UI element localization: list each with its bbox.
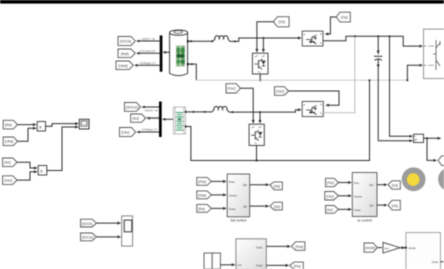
svg-text:Imes: Imes (229, 207, 236, 211)
chopper2 IGBT diode block (249, 124, 264, 145)
From tag Ibat3 (197, 204, 212, 212)
wire gain to state block (400, 247, 405, 249)
From tag Usc3 (325, 192, 339, 201)
inductor L1 (213, 36, 230, 42)
negative DC bus (light) (196, 79, 407, 81)
wire mode to gain (377, 247, 382, 249)
svg-text:[SOCsc]: [SOCsc] (82, 236, 94, 240)
svg-text:[SOCsc]: [SOCsc] (126, 105, 139, 109)
svg-text:[Pre]: [Pre] (294, 265, 301, 269)
svg-text:[Psc]: [Psc] (327, 181, 334, 185)
svg-text:Db: Db (243, 183, 247, 187)
wire demux1 to Ubat1 (134, 64, 160, 67)
wire product2 to scope (47, 127, 78, 171)
wire DC bus to voltmeter minus (390, 36, 413, 136)
From tag Psc1 (326, 178, 339, 186)
svg-text:Imes: Imes (354, 208, 361, 212)
From tag Gsc2 (275, 87, 289, 96)
wire Ibat2 to product1 (18, 124, 36, 126)
wire bus to chopper1 collector (262, 38, 264, 52)
svg-text:[Isc]: [Isc] (327, 208, 333, 212)
svg-text:[Usc]: [Usc] (122, 131, 130, 135)
svg-text:In1: In1 (238, 263, 243, 267)
From tag Ibat2 (3, 120, 17, 129)
SOC scope block (122, 216, 133, 246)
svg-text:<Current A>: <Current A> (139, 49, 156, 53)
wire Gb to chopper1 gate (257, 22, 273, 52)
wire battery m to demux1 (162, 51, 170, 54)
wire demux2 to Isc1 (146, 117, 159, 120)
From tag SOCb2 (81, 219, 97, 227)
svg-text:<SOC> %: <SOC> % (141, 37, 155, 41)
demux battery1 (160, 35, 163, 71)
wires into sc control (338, 182, 351, 184)
wire demux2 to Usc1 (136, 131, 159, 134)
From tag Isc3 (326, 206, 339, 214)
wire IGBT3 out to DC plus bus (light) (323, 37, 355, 113)
From tag Gsc (226, 84, 240, 93)
svg-text:[Gs2]: [Gs2] (276, 89, 284, 93)
svg-text:Out1: Out1 (256, 246, 263, 250)
svg-text:Qb: Qb (243, 205, 247, 209)
svg-text:[Gb]: [Gb] (279, 20, 285, 24)
svg-text:sc control: sc control (357, 219, 372, 223)
wire Usc2 to product2 (17, 172, 37, 180)
svg-text:[Usc]: [Usc] (4, 179, 12, 183)
svg-text:[Gs]: [Gs] (392, 204, 398, 208)
svg-text:1/U: 1/U (384, 246, 389, 250)
wire Isc2 to product2 (17, 162, 37, 168)
svg-text:[SOCb]: [SOCb] (82, 222, 93, 226)
demux supercap (159, 102, 162, 138)
goto tag Usc1 (120, 128, 136, 137)
goto tag Isc1 (131, 114, 146, 122)
From tag SOCsc2 (81, 233, 97, 241)
svg-text:[Pba]: [Pba] (295, 245, 303, 249)
wire Ubat2 to product1 (18, 128, 36, 141)
capacitor C1 (374, 36, 382, 141)
goto tag Ubat1 (116, 61, 133, 70)
wire source to profile block (220, 264, 234, 266)
converter block right edge (424, 29, 444, 78)
wire chopper2 emitter to neg bus (255, 146, 257, 162)
chopper1 IGBT diode block (252, 53, 268, 74)
subsystem sc control (352, 173, 377, 217)
svg-text:[Iba]: [Iba] (5, 123, 12, 127)
svg-text:[Isc]: [Isc] (4, 161, 10, 165)
product block P2 (38, 166, 47, 176)
goto tag Db (270, 182, 282, 190)
svg-text:Out1: Out1 (432, 260, 439, 264)
svg-text:<SOC> %: <SOC> % (144, 109, 158, 113)
wire profile out2 (266, 264, 288, 266)
goto tag Gsc out1 (388, 181, 400, 189)
svg-text:[Gsc]: [Gsc] (228, 87, 236, 91)
wire IGBT2 out to DC plus bus (323, 35, 422, 46)
From tag Usc2 (3, 176, 17, 185)
From tag Ga (336, 12, 350, 22)
svg-text:[Iba]: [Iba] (198, 207, 204, 211)
svg-text:[Uba]: [Uba] (198, 194, 206, 198)
wire SOCsc2 to display (96, 236, 120, 238)
From tag mode (364, 243, 377, 252)
wires into bat control (211, 180, 226, 182)
wire battery plus to L1 (189, 40, 213, 42)
goto tag Vdc clipped at edge (438, 156, 444, 166)
svg-text:[Isc]: [Isc] (133, 117, 139, 121)
wire capacitor to voltmeter plus (378, 140, 412, 142)
svg-text:Psc: Psc (354, 181, 360, 185)
svg-text:Out2: Out2 (256, 263, 263, 267)
goto tag SOCsc (125, 103, 141, 112)
wire sc control out2 (377, 204, 387, 206)
title bar (0, 0, 444, 4)
wire battery minus (189, 63, 197, 80)
svg-text:[Ga]: [Ga] (341, 16, 347, 20)
svg-text:[Usc]: [Usc] (326, 194, 334, 198)
wire bat control out1 (250, 184, 269, 186)
wire chopper1 emitter to neg bus (259, 74, 261, 81)
wire bus to chopper2 collector (259, 112, 261, 123)
svg-text:mode: mode (408, 246, 416, 250)
wire Gsc to chopper2 gate (240, 88, 253, 123)
goto tag Qb (270, 202, 282, 210)
wire demux2 to SOCsc (141, 106, 159, 109)
wire Ga to IGBT2 gate (325, 17, 336, 34)
wire supercap plus to L2 (187, 111, 206, 113)
scope power (79, 119, 89, 129)
wire sc control out1 (377, 184, 387, 186)
svg-text:[SOCb]: [SOCb] (120, 40, 131, 44)
svg-text:Qb: Qb (370, 203, 374, 207)
From tag Isc2 (3, 158, 17, 167)
svg-text:<Current A>: <Current A> (144, 116, 161, 120)
wire supercap m to demux2 (162, 118, 174, 121)
lamp 1 (402, 167, 426, 191)
wire profile out1 (266, 245, 290, 247)
state machine block (405, 233, 444, 269)
wire supercap minus + lower neg bus (187, 79, 371, 160)
svg-text:[mode]: [mode] (365, 246, 375, 250)
svg-text:Pref: Pref (229, 180, 235, 184)
gain 1/Udc (383, 242, 400, 253)
goto tag Pref (290, 262, 304, 269)
inductor L2 (206, 106, 229, 112)
svg-text:[Ubat]: [Ubat] (119, 64, 128, 68)
svg-text:[Db]: [Db] (274, 184, 280, 188)
wire SOCb2 to display (96, 222, 120, 224)
From tag Ubat3 (197, 191, 212, 199)
svg-text:Umes: Umes (229, 193, 237, 197)
svg-text:<Voltage V>: <Voltage V> (141, 128, 158, 132)
IGBT3 boost switch (302, 101, 323, 116)
wire neg bus to converter (406, 65, 422, 81)
svg-text:[Ibat]: [Ibat] (121, 52, 129, 56)
wire bat control out2 (250, 205, 269, 207)
svg-text:bat control: bat control (230, 219, 246, 223)
supercapacitor SC1 (173, 107, 186, 134)
svg-text:Db: Db (370, 183, 374, 187)
subsystem power profile (236, 239, 266, 269)
wire L2 to IGBT3 (229, 110, 301, 113)
svg-text:Umes: Umes (354, 194, 362, 198)
From tag Pbat1 (197, 177, 212, 185)
wire demux1 to Ibat1 (136, 52, 160, 55)
voltage measurement block (414, 134, 424, 142)
goto tag SOCb1 (118, 37, 135, 46)
svg-text:[Pba]: [Pba] (198, 180, 206, 184)
goto tag Ibat1 (118, 49, 135, 58)
svg-text:[Qb]: [Qb] (274, 205, 280, 209)
IGBT2 boost switch (302, 31, 323, 46)
svg-text:[Uba]: [Uba] (5, 140, 13, 144)
wire L1 to bus (230, 37, 301, 42)
battery B1 (168, 30, 189, 76)
From tag Gb (273, 17, 289, 27)
signal builder source (204, 253, 220, 269)
svg-text:[Gs]: [Gs] (392, 183, 398, 187)
subsystem bat control (227, 174, 250, 217)
wire demux1 to SOCb1 (136, 40, 160, 43)
wire product1 to scope (46, 124, 79, 127)
product block P1 (37, 122, 45, 132)
lamp 2 clipped (438, 167, 444, 191)
wire Gsc2 to IGBT3 gate (289, 91, 340, 105)
From tag Ubat2 (3, 137, 17, 146)
goto tag Gsc out2 (388, 200, 400, 210)
goto tag Pbat2 (291, 242, 305, 251)
svg-text:<Voltage V>: <Voltage V> (139, 61, 156, 65)
wire voltmeter out (424, 137, 441, 160)
